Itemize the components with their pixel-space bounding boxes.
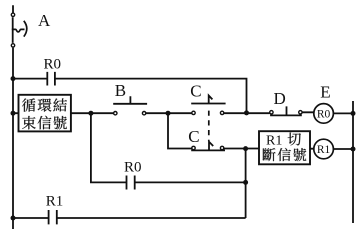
svg-text:R1: R1 (317, 144, 331, 156)
svg-text:A: A (38, 11, 51, 30)
svg-text:R0: R0 (317, 109, 331, 121)
svg-text:C: C (188, 127, 199, 146)
svg-text:R0: R0 (124, 160, 142, 176)
svg-text:B: B (115, 81, 126, 100)
svg-text:R0: R0 (44, 56, 62, 72)
svg-text:R1: R1 (266, 133, 282, 148)
svg-text:C: C (190, 82, 201, 101)
svg-text:E: E (320, 82, 330, 101)
svg-text:D: D (274, 89, 286, 108)
svg-text:R1: R1 (46, 194, 64, 210)
